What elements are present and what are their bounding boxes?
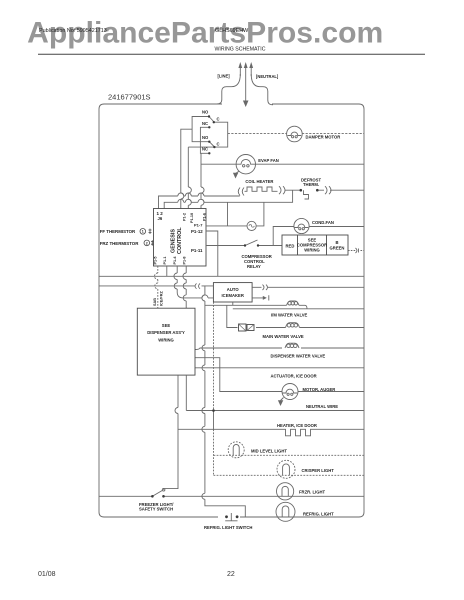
svg-text:REFRIG. LIGHT SWITCH: REFRIG. LIGHT SWITCH bbox=[204, 525, 252, 530]
wire auger drop and row bbox=[195, 358, 364, 392]
freezer switch upper contact bbox=[162, 489, 165, 492]
connector chevron icemaker feed bbox=[195, 283, 200, 288]
connector chevron to right edge bbox=[325, 186, 331, 194]
svg-text:ACTUATOR, ICE DOOR: ACTUATOR, ICE DOOR bbox=[271, 374, 317, 379]
schematic outer frame bbox=[99, 104, 364, 517]
plug prong line bbox=[239, 67, 241, 76]
svg-text:Publication No: 5995421713: Publication No: 5995421713 bbox=[39, 28, 107, 34]
svg-text:[NEUTRAL]: [NEUTRAL] bbox=[256, 74, 279, 79]
wire P1-10 riser to switch bbox=[188, 147, 191, 208]
junction dot defrost left bbox=[300, 189, 303, 192]
defrost thermostat element bbox=[304, 190, 309, 199]
wire dispenser valve row bbox=[195, 348, 364, 350]
wire mid level light dashed row bbox=[214, 454, 365, 456]
wire dashed aux vertical bbox=[213, 302, 215, 475]
evap fan circle bbox=[236, 155, 255, 174]
svg-text:ICE/FRZ: ICE/FRZ bbox=[160, 291, 164, 306]
svg-text:NC: NC bbox=[202, 121, 208, 126]
evap fan ground arrow bbox=[233, 173, 238, 179]
wire dispenser drop to freezer switch bbox=[164, 375, 179, 490]
connector arrow compressor output bbox=[356, 248, 359, 253]
svg-text:B: B bbox=[335, 240, 338, 245]
relay contact dot right bbox=[257, 244, 259, 246]
refrig switch dot right bbox=[236, 515, 239, 518]
compressor wiring box bbox=[282, 235, 348, 255]
inline plug connector main valve bbox=[239, 324, 247, 331]
connector pins J11 bbox=[151, 240, 154, 245]
defrost heater loop bbox=[228, 202, 264, 226]
freezer switch dot right bbox=[162, 495, 165, 498]
svg-text:P1-4: P1-4 bbox=[173, 256, 177, 265]
refrig light switch plunger bbox=[225, 513, 237, 521]
wire NO contacts left rail bbox=[192, 117, 209, 142]
header rule line bbox=[38, 53, 425, 55]
wire freezer light row bbox=[99, 495, 364, 497]
freezer safety switch blade bbox=[152, 491, 162, 497]
svg-text:AUTO: AUTO bbox=[227, 287, 240, 292]
evap fan motor symbol bbox=[236, 159, 255, 164]
ground arrowhead down bbox=[243, 101, 249, 108]
wire compressor output dashed bbox=[348, 250, 364, 252]
freezer switch dot left bbox=[151, 495, 154, 498]
contact dot NO1 bbox=[208, 115, 210, 117]
prong arrowhead 1 bbox=[238, 62, 242, 68]
svg-text:22: 22 bbox=[227, 571, 235, 578]
wire pin P1-5 dashed drop to dispenser bbox=[155, 266, 158, 308]
connector chevron before coil heater bbox=[238, 188, 244, 196]
svg-text:P1-5: P1-5 bbox=[154, 256, 158, 264]
svg-text:1: 1 bbox=[142, 230, 144, 234]
svg-text:P1-2: P1-2 bbox=[182, 213, 186, 221]
svg-text:COIL HEATER: COIL HEATER bbox=[245, 179, 273, 184]
svg-text:P1-11: P1-11 bbox=[191, 248, 203, 253]
prong arrowhead 3 bbox=[249, 62, 253, 68]
svg-text:P1-8: P1-8 bbox=[183, 256, 187, 264]
svg-text:FF THERMISTOR: FF THERMISTOR bbox=[100, 229, 136, 234]
relay contact dot left bbox=[244, 244, 246, 246]
svg-text:COND.FAN: COND.FAN bbox=[312, 220, 334, 225]
svg-text:GENESIS: GENESIS bbox=[171, 229, 177, 253]
connector pins J10 bbox=[149, 229, 152, 234]
svg-text:P1-10: P1-10 bbox=[190, 213, 194, 223]
svg-text:SAB: SAB bbox=[153, 298, 157, 306]
wire IM valve row bbox=[205, 302, 364, 309]
wire icemaker output lower with plug bbox=[252, 295, 269, 300]
svg-text:REFRIG. LIGHT: REFRIG. LIGHT bbox=[303, 512, 334, 517]
switch blade 2 bbox=[209, 142, 215, 148]
svg-text:RELAY: RELAY bbox=[247, 264, 261, 269]
wire neutral to heater drop bbox=[213, 411, 215, 430]
wire neutral row bbox=[186, 410, 364, 412]
junction dot defrost right bbox=[316, 189, 319, 192]
auger motor circle bbox=[282, 384, 298, 400]
svg-text:[LINE]: [LINE] bbox=[218, 74, 231, 79]
svg-text:FRZ THERMISTOR: FRZ THERMISTOR bbox=[100, 241, 140, 246]
svg-text:MOTOR, AUGER: MOTOR, AUGER bbox=[303, 387, 336, 392]
prong arrowhead 2 bbox=[244, 62, 248, 68]
refrig light lamp bbox=[276, 502, 295, 521]
wire actuator row bbox=[195, 367, 364, 369]
auger ground arrow bbox=[278, 400, 283, 406]
genesis control box bbox=[154, 209, 207, 267]
wire defrost thermostat row bbox=[285, 189, 365, 191]
svg-text:GLHS69EHW: GLHS69EHW bbox=[215, 28, 249, 34]
svg-text:WIRING: WIRING bbox=[158, 338, 174, 343]
wire J6-2 defrost loop row bbox=[164, 190, 292, 208]
wire switch common bus right rail bbox=[188, 122, 227, 147]
svg-text:NO: NO bbox=[202, 135, 209, 140]
svg-text:WIRING SCHEMATIC: WIRING SCHEMATIC bbox=[215, 47, 266, 53]
dispenser water valve coil bbox=[285, 343, 299, 348]
defrost heater circle bbox=[247, 221, 256, 230]
wire evap fan row bbox=[201, 163, 364, 165]
svg-text:C: C bbox=[217, 117, 220, 122]
wire main valve row bbox=[227, 306, 364, 328]
svg-text:DISPENSER WATER VALVE: DISPENSER WATER VALVE bbox=[271, 354, 326, 359]
connector chevron after coil heater bbox=[279, 186, 285, 194]
auto icemaker box bbox=[213, 283, 252, 302]
relay blade bbox=[245, 240, 258, 246]
plug prong neutral bbox=[250, 67, 252, 76]
svg-text:P1-12: P1-12 bbox=[191, 229, 203, 234]
svg-text:NO: NO bbox=[202, 110, 209, 115]
power cord outline bbox=[215, 74, 240, 104]
wire P1-2 riser to switch bbox=[181, 129, 192, 208]
contact dot common2 bbox=[213, 146, 215, 148]
wire damper motor row bbox=[228, 132, 364, 134]
contact dot NC2 bbox=[208, 152, 210, 154]
svg-text:01/08: 01/08 bbox=[38, 571, 56, 578]
wire P1-6 riser evap junction to switch NC2 bbox=[201, 153, 204, 208]
wire icemaker feed row y286 bbox=[99, 285, 213, 287]
svg-text:EVAP FAN: EVAP FAN bbox=[258, 158, 279, 163]
circled connector 1 bbox=[140, 229, 146, 235]
svg-text:DAMPER MOTOR: DAMPER MOTOR bbox=[306, 135, 341, 140]
wire pin P1-8 drop to dispenser bbox=[183, 266, 186, 308]
compressor box divider right bbox=[326, 235, 328, 255]
refrig switch dot left bbox=[225, 515, 228, 518]
wire dispenser drop to neutral bbox=[185, 375, 187, 410]
cond fan circle bbox=[294, 218, 309, 233]
wire P1-11 relay row bbox=[206, 245, 282, 247]
svg-text:WIRING: WIRING bbox=[304, 248, 320, 253]
svg-text:2: 2 bbox=[146, 241, 148, 245]
plug prong ground long shaft bbox=[245, 67, 247, 101]
wire P1-12 stub bbox=[206, 231, 218, 276]
svg-text:DISPENSER ASS'Y: DISPENSER ASS'Y bbox=[147, 330, 185, 335]
contact dot NO2 bbox=[208, 141, 210, 143]
damper motor circle bbox=[287, 126, 303, 142]
dispenser assy box bbox=[137, 308, 195, 375]
mid level light lamp bbox=[228, 442, 244, 458]
svg-text:C: C bbox=[217, 142, 220, 147]
neutral junction dot bbox=[212, 409, 215, 412]
svg-text:I/M WATER VALVE: I/M WATER VALVE bbox=[271, 313, 307, 318]
crisper light lamp bbox=[277, 460, 295, 478]
wire row from left edge y276 bbox=[99, 275, 364, 277]
svg-text:ICEMAKER: ICEMAKER bbox=[222, 293, 244, 298]
wire crisper light dashed row bbox=[214, 474, 365, 476]
wire J6-1 feed row to coil heater bbox=[159, 193, 240, 209]
svg-text:MID LEVEL LIGHT: MID LEVEL LIGHT bbox=[251, 449, 287, 454]
svg-text:NC: NC bbox=[202, 147, 208, 152]
svg-text:GREEN: GREEN bbox=[330, 246, 345, 251]
contact dot NC1 bbox=[208, 126, 210, 128]
svg-text:FRZR. LIGHT: FRZR. LIGHT bbox=[299, 490, 325, 495]
svg-text:P1-7: P1-7 bbox=[194, 223, 203, 228]
damper motor symbol bbox=[288, 132, 302, 135]
svg-text:CONTROL: CONTROL bbox=[177, 227, 183, 254]
svg-text:SAFETY SWITCH: SAFETY SWITCH bbox=[139, 507, 173, 512]
wire icemaker output top bbox=[252, 286, 364, 288]
svg-text:SEE: SEE bbox=[162, 323, 171, 328]
auger ground lead bbox=[281, 398, 284, 401]
compressor box divider left bbox=[297, 235, 299, 255]
svg-text:241677901S: 241677901S bbox=[108, 93, 151, 102]
evap fan ground lead bbox=[236, 171, 239, 173]
svg-text:RED: RED bbox=[286, 244, 295, 249]
wire pin P1-1 drop bbox=[166, 266, 168, 276]
svg-text:P1-6: P1-6 bbox=[202, 213, 206, 221]
svg-text:J6: J6 bbox=[158, 216, 163, 221]
circled connector 2 bbox=[144, 240, 150, 246]
main water valve coil bbox=[286, 323, 300, 328]
svg-text:NEUTRAL WIRE: NEUTRAL WIRE bbox=[306, 404, 338, 409]
svg-text:MAIN WATER VALVE: MAIN WATER VALVE bbox=[263, 334, 304, 339]
wire main bus drop from icemaker feed bbox=[202, 286, 245, 517]
svg-text:P1-1: P1-1 bbox=[163, 256, 167, 264]
contact dot common1 bbox=[213, 121, 215, 123]
switch blade 1 bbox=[209, 117, 215, 123]
auger motor symbol bbox=[283, 389, 298, 393]
wire NC contacts left rail bbox=[200, 127, 209, 153]
frz light lamp bbox=[277, 483, 294, 500]
heater ice door element bbox=[283, 429, 314, 436]
wire P1-7 stub bbox=[206, 225, 228, 227]
connector chevron icemaker output bbox=[263, 285, 268, 290]
IM water valve coil bbox=[287, 301, 300, 305]
wire pin P1-4 drop to icemaker lower input bbox=[174, 266, 213, 298]
svg-text:CRISPER LIGHT: CRISPER LIGHT bbox=[302, 468, 335, 473]
svg-text:THERM.: THERM. bbox=[303, 182, 319, 187]
wire heater ice door row bbox=[178, 428, 364, 430]
coil heater element bbox=[245, 187, 278, 191]
cond fan motor symbol bbox=[295, 224, 309, 227]
svg-text:HEATER, ICE DOOR: HEATER, ICE DOOR bbox=[277, 423, 317, 428]
wire cond fan drop bbox=[273, 227, 364, 246]
